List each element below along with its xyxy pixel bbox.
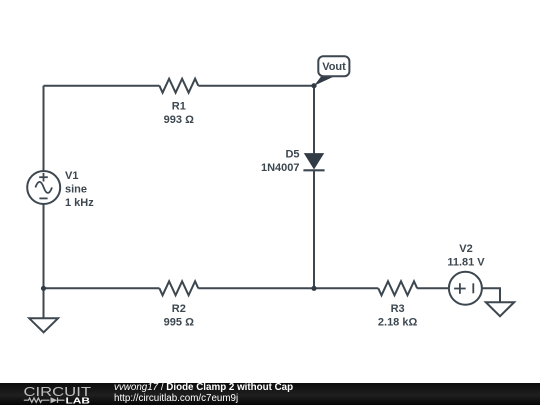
Vout flag pointer — [314, 76, 335, 86]
wire R3 to V2 left terminal — [417, 287, 449, 289]
ground symbol left — [29, 318, 58, 332]
voltage source V2 circle — [449, 272, 482, 305]
V2 minus bar (rotated) — [472, 283, 474, 293]
wire top horizontal right (R1 to Vout node) — [198, 85, 314, 87]
resistor R1 — [159, 79, 198, 93]
ground symbol right — [486, 302, 514, 316]
svg-text:Vout: Vout — [322, 61, 346, 73]
svg-text:V1: V1 — [65, 170, 78, 182]
diode D5 — [303, 154, 324, 171]
V1 sine symbol — [35, 182, 52, 193]
footer title text — [114, 382, 293, 405]
wire top-left vertical (node A to V1 top) — [43, 86, 45, 171]
wire bottom horizontal left (ground node to R2) — [44, 287, 160, 289]
wire vertical diode D5 cathode to bottom node — [313, 170, 315, 288]
resistor R2 — [159, 281, 198, 295]
junction node bottom left — [41, 286, 46, 291]
junction node at Vout — [311, 83, 316, 88]
V1 minus sign — [39, 197, 47, 199]
wire bottom horizontal middle (R2 to bottom node) — [198, 287, 314, 289]
svg-text:D5: D5 — [285, 148, 299, 160]
CircuitLab logo — [0, 383, 100, 405]
svg-text:995 Ω: 995 Ω — [164, 316, 194, 328]
V1 plus sign — [39, 173, 48, 182]
voltage source V1 circle — [27, 171, 60, 204]
svg-text:1 kHz: 1 kHz — [65, 197, 94, 209]
wire V2 right terminal to ground right — [482, 288, 500, 302]
svg-text:R3: R3 — [391, 303, 405, 315]
footer bar — [0, 383, 540, 405]
svg-text:1N4007: 1N4007 — [261, 162, 300, 174]
junction node bottom middle — [311, 286, 316, 291]
svg-text:V2: V2 — [459, 243, 472, 255]
wire vertical Vout node to diode D5 anode — [313, 86, 315, 155]
V2 plus sign — [454, 283, 466, 294]
wire bottom horizontal right (bottom node to R3) — [314, 287, 378, 289]
svg-text:R1: R1 — [172, 101, 186, 113]
wire top horizontal left (node A to R1) — [44, 85, 160, 87]
svg-text:R2: R2 — [172, 303, 186, 315]
resistor R3 — [378, 281, 417, 295]
svg-text:11.81 V: 11.81 V — [447, 256, 485, 268]
Vout flag box — [318, 56, 349, 76]
svg-text:LAB: LAB — [66, 396, 91, 405]
svg-text:993 Ω: 993 Ω — [164, 114, 194, 126]
svg-text:sine: sine — [65, 183, 87, 195]
wire V1 bottom to ground node — [43, 204, 45, 318]
svg-text:2.18 kΩ: 2.18 kΩ — [378, 316, 418, 328]
